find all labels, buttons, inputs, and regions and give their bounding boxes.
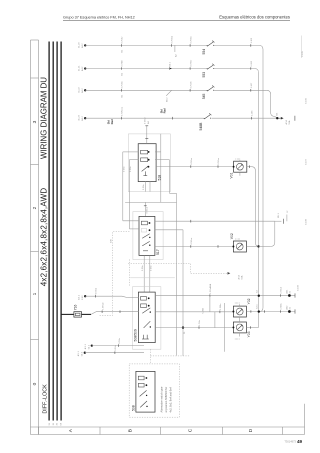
svg-text:0.75Gr: 0.75Gr (189, 60, 192, 67)
wire 518 to V01 (156, 157, 234, 168)
diagram title WIRING DIAGRAM DU (39, 77, 48, 159)
wire row 3 feed label (79, 87, 84, 93)
svg-text:B5.1: B5.1 (278, 213, 280, 218)
alternative relay contact 1 (140, 390, 148, 396)
frame right border (304, 404, 306, 435)
node row A terminal (285, 289, 295, 298)
grid letter A (68, 428, 74, 432)
diagram subtitle axle configs (39, 188, 48, 287)
row A left drop (202, 296, 210, 314)
svg-text:4x2, 8x2, 8x4 and 6x4: 4x2, 8x2, 8x4 and 6x4 (169, 387, 173, 413)
svg-text:WIRING DIAGRAM DU: WIRING DIAGRAM DU (39, 77, 48, 159)
diode V01 bottom stub (239, 172, 241, 176)
wire W3 (92, 337, 144, 347)
relay 508/509 bottom marks (142, 335, 149, 339)
relay 517 contact 2 (142, 241, 150, 250)
relay 517 contact 1 (142, 234, 150, 239)
svg-text:0.5Sv: 0.5Sv (143, 184, 145, 190)
svg-text:D: D (248, 428, 254, 432)
svg-text:A 5.1: A 5.1 (84, 343, 87, 349)
svg-text:B: B (128, 429, 134, 432)
svg-text:4x2,6x2,6x4,8x2,8x4,AWD: 4x2,6x2,6x4,8x2,8x4,AWD (39, 188, 48, 287)
svg-text:B4.2: B4.2 (82, 66, 84, 71)
svg-text:55A: 55A (288, 120, 291, 124)
wire marker row2 a (121, 60, 123, 76)
solenoid Y02 dashed bracket (235, 303, 240, 306)
diagram subtitle DIFF-LOCK (42, 384, 48, 414)
svg-text:0.75Vit: 0.75Vit (189, 81, 192, 88)
row B wire left (155, 311, 234, 313)
wire W4 (85, 344, 144, 354)
svg-text:716: 716 (74, 305, 78, 311)
svg-text:C:108: C:108 (306, 218, 308, 225)
relay 508/509 contact 1 (142, 308, 151, 313)
svg-text:31-23: 31-23 (79, 114, 81, 120)
svg-text:V02: V02 (230, 233, 234, 239)
svg-text:C2.1: C2.1 (257, 304, 259, 309)
relay 508/509 body (138, 292, 155, 343)
alternative relay 508 body (136, 371, 155, 412)
wire 518 right pin down (155, 134, 161, 203)
svg-text:31-20: 31-20 (79, 42, 81, 48)
svg-text:49: 49 (297, 439, 303, 444)
relay 517 coil 1 (141, 221, 150, 225)
alternative relay contact 2 (140, 401, 148, 407)
svg-text:0.5Gra: 0.5Gra (217, 157, 220, 164)
relay 508/509 coil 2 (141, 304, 150, 308)
svg-text:1.5Bla: 1.5Bla (281, 303, 283, 310)
solenoid Y03 designator (235, 331, 251, 340)
connector label right margin 2 (306, 97, 308, 104)
relay 508/509 contact 2 (144, 321, 151, 328)
page header right title (219, 14, 290, 19)
svg-text:0.5Sv: 0.5Sv (130, 166, 132, 172)
grid digit 3 (32, 120, 38, 123)
wire 518 top stub (145, 117, 150, 144)
node row A drop (257, 289, 260, 296)
wire fuse to relay (91, 302, 138, 314)
relay 517 body (139, 216, 155, 255)
wire marker row2 b (169, 61, 171, 69)
svg-text:( ) ( ): ( ) ( ) (235, 303, 240, 305)
svg-text:DIFF.-LOCK: DIFF.-LOCK (42, 384, 48, 414)
relay 517 coil 2 (141, 228, 150, 232)
svg-text:A 54: A 54 (285, 119, 288, 124)
svg-text:1.5Sv: 1.5Sv (199, 319, 201, 325)
wire drop from row 3 (267, 90, 278, 118)
diode V01 designator (230, 172, 234, 178)
row C wire right (246, 326, 258, 329)
svg-text:Grupo 37 Esquema elétrico FM,: Grupo 37 Esquema elétrico FM, FH, NH12 (63, 15, 135, 19)
node row 4 feed (84, 117, 86, 119)
svg-text:C:107: C:107 (306, 158, 308, 165)
connector label right margin 4 (306, 218, 308, 225)
node W3 (91, 344, 93, 346)
dashed alternative path (99, 232, 129, 316)
svg-text:Rad: Rad (163, 108, 167, 113)
svg-text:1-106: 1-106 (252, 110, 254, 116)
node row 3 feed (84, 89, 86, 91)
cable code label row 4 right (159, 108, 166, 113)
relay 518 body (138, 144, 156, 182)
wire 517 top stub (144, 202, 149, 216)
wire 517 left pins (123, 166, 139, 229)
wire row 2 after switch (214, 60, 254, 70)
svg-text:( ) ( ): ( ) ( ) (236, 158, 241, 160)
wire marker row3 b (189, 81, 192, 91)
svg-text:( ) ( ): ( ) ( ) (235, 339, 240, 341)
svg-text:T3014973: T3014973 (284, 440, 296, 444)
relay 518 coil 2 (141, 158, 150, 162)
relay 518 contact (142, 166, 150, 176)
grid letter B (128, 429, 134, 432)
svg-text:1-107: 1-107 (251, 82, 253, 88)
wire row 4 after switch (212, 110, 277, 120)
svg-text:( ) ( ): ( ) ( ) (235, 239, 240, 241)
row C wire left (155, 319, 234, 329)
svg-text:C:105: C:105 (302, 50, 304, 57)
wire W3 feed label (84, 343, 90, 349)
relay 518 coil 1 (141, 150, 150, 154)
svg-text:545: 545 (202, 94, 206, 100)
svg-text:B4.2: B4.2 (82, 43, 84, 48)
node V02 junction (257, 245, 259, 247)
wire V01 to drop (247, 165, 259, 246)
fuse 716 (74, 305, 82, 318)
wire row 1 after switch (214, 37, 259, 47)
svg-text:B6A: B6A (209, 283, 212, 288)
node ground bus junction (182, 326, 186, 334)
page footer number (284, 439, 302, 444)
grid digit 2 (32, 206, 38, 209)
row B left drop (214, 312, 216, 328)
node row 4 junction (276, 112, 278, 119)
diode module V02 (232, 241, 246, 252)
wire drop from row 1 (259, 45, 264, 311)
svg-text:0.75Sv: 0.75Sv (122, 36, 124, 44)
wire marker row4 b (172, 117, 174, 120)
svg-text:1-106: 1-106 (251, 60, 253, 66)
svg-text:517: 517 (156, 249, 160, 255)
wire row 1 (85, 44, 207, 46)
alternative relay designator (132, 405, 136, 411)
svg-text:0.5Sv: 0.5Sv (115, 344, 117, 350)
svg-text:B6.1: B6.1 (170, 61, 172, 66)
wire marker row3 a (121, 80, 123, 97)
svg-text:A 5.1: A 5.1 (77, 351, 80, 357)
page header rule (63, 20, 290, 22)
diode V02 designator (230, 233, 234, 239)
svg-text:0.5Sv: 0.5Sv (142, 265, 144, 271)
switch 548B (199, 113, 211, 130)
svg-text:0.75Gn: 0.75Gn (122, 80, 124, 88)
wire marker row2 c (189, 60, 192, 70)
wire row 3 (85, 89, 207, 91)
solenoid Y02 bottom stub (239, 317, 241, 322)
dashed ground link (150, 349, 190, 364)
solenoid valve Y03 (232, 322, 246, 333)
svg-text:0.5Gra: 0.5Gra (190, 157, 193, 164)
wire row 4 (85, 117, 204, 119)
wire stub below row1 (175, 45, 178, 57)
dashed link drop (209, 283, 212, 288)
relay 517 designator (156, 249, 160, 255)
relay 508/509 designator (133, 329, 137, 341)
svg-text:at position 508/509 for: at position 508/509 for (164, 387, 168, 413)
solenoid Y02 designator (247, 298, 251, 304)
svg-text:0.75Gul: 0.75Gul (172, 35, 174, 43)
power bus bar 2 (52, 42, 54, 421)
row A markers (210, 287, 283, 297)
diode V02 dashed bracket (235, 239, 240, 241)
wire marker row1 b (171, 35, 173, 46)
wire drop from row 2 (255, 69, 259, 328)
svg-text:B4.2: B4.2 (82, 88, 84, 93)
switch 553 (202, 64, 214, 78)
bus bar bottom labels (49, 422, 63, 425)
node W1 (84, 295, 86, 297)
arrow out row 4 (279, 116, 295, 125)
wire feed label W1 (78, 294, 84, 300)
wire W4 feed label (77, 351, 83, 357)
svg-text:Y02: Y02 (247, 298, 251, 304)
wire 518 coil2 right down (155, 160, 177, 356)
svg-text:0.5Gul: 0.5Gul (145, 117, 147, 124)
fuse 716 feed thick wire (62, 313, 74, 315)
wire 518 left pin 2 (129, 160, 138, 229)
svg-text:508: 508 (132, 405, 136, 411)
alternative relay coil 1 (138, 376, 147, 380)
svg-text:0.5Sv: 0.5Sv (119, 337, 121, 343)
svg-text:1-105: 1-105 (251, 37, 253, 43)
node row B drop (257, 304, 260, 313)
relay 518 enclosure (128, 134, 170, 192)
diode module V01 (233, 161, 247, 172)
svg-text:553: 553 (202, 72, 206, 78)
node row 2 feed (84, 67, 86, 69)
svg-text:0.75Bl: 0.75Bl (122, 60, 124, 67)
grid digit 0 (32, 382, 38, 385)
wire 517 bottom pins (142, 255, 153, 292)
svg-text:C: C (188, 428, 194, 432)
svg-text:B4.2: B4.2 (82, 116, 84, 121)
svg-text:0.5Gul: 0.5Gul (147, 207, 149, 214)
svg-text:0.75Gn: 0.75Gn (190, 36, 192, 44)
svg-text:0.5Sv: 0.5Sv (150, 265, 152, 271)
dashed link arrow (128, 259, 243, 286)
svg-text:1.5Bla: 1.5Bla (220, 303, 222, 310)
grid letter D (248, 428, 254, 432)
svg-text:0.75Rosa: 0.75Rosa (122, 106, 124, 116)
svg-text:548B: 548B (199, 122, 203, 131)
svg-text:1.5Rod: 1.5Rod (102, 302, 104, 310)
bottom strip top rule (31, 426, 305, 428)
relay 518 designator (157, 175, 161, 181)
alternative switch legend box (129, 364, 179, 417)
diode V01 dashed bracket (236, 158, 241, 161)
svg-text:Rad: Rad (110, 119, 114, 124)
cable code label row 4 (107, 119, 114, 124)
legend note text (160, 386, 173, 412)
wire 517 to V02 (155, 237, 234, 248)
svg-text:0: 0 (32, 382, 38, 385)
wire row 3 after switch (214, 82, 266, 92)
drawing frame inner left border (31, 40, 39, 435)
svg-text:Y03: Y03 (247, 331, 251, 337)
wire 518 left pin 1 (123, 152, 138, 221)
svg-text:31-21: 31-21 (79, 65, 81, 71)
node W4 (84, 352, 86, 354)
power bus bar 3 (56, 42, 58, 421)
wire jog row3 (166, 90, 171, 102)
svg-text:2: 2 (32, 206, 38, 209)
node row B terminal (285, 305, 295, 314)
node row 1 feed (84, 44, 86, 46)
svg-text:C:109: C:109 (298, 284, 300, 291)
switch 554 (202, 41, 214, 55)
wire 517 right pin 1 (155, 210, 289, 224)
connector labels right margin (302, 36, 305, 59)
wire row 2 feed label (79, 65, 84, 71)
svg-text:B6.2: B6.2 (167, 97, 169, 102)
svg-text:A 54: A 54 (238, 274, 241, 279)
wire 518 bottom stubs (143, 182, 150, 192)
svg-text:554: 554 (202, 49, 206, 55)
svg-text:U05B: U05B (202, 307, 204, 313)
page header left title (63, 15, 135, 19)
grid letter C (188, 428, 194, 432)
optional block separator (130, 277, 175, 279)
row B markers (220, 303, 222, 313)
relay 508/509 enclosure (133, 287, 161, 350)
svg-text:V01: V01 (230, 172, 234, 178)
connector label right margin 5 (298, 284, 300, 291)
switch 545 (202, 86, 214, 100)
alternative relay coil 2 (138, 383, 147, 387)
solenoid valve Y02 (232, 306, 246, 317)
grid ticks left column (31, 78, 39, 340)
wire 517 right pin 2 (155, 230, 183, 356)
svg-text:31-22: 31-22 (79, 87, 81, 93)
relay 508/509 coil 1 (141, 297, 150, 301)
row B wire right (246, 303, 295, 313)
svg-text:1.5Gul: 1.5Gul (210, 287, 212, 294)
bottom strip bottom rule (31, 434, 305, 436)
svg-text:C:106: C:106 (306, 97, 308, 104)
wire marker row4 a (121, 106, 123, 119)
svg-text:Esquemas elétricos dos compone: Esquemas elétricos dos componentes (219, 14, 290, 19)
grid digit 1 (32, 292, 38, 295)
wire cross link 202 (125, 201, 176, 203)
svg-text:3: 3 (32, 120, 38, 123)
power bus bar 1 (48, 42, 50, 421)
wire W1 to relay (85, 287, 138, 297)
svg-text:A 5.1: A 5.1 (78, 294, 81, 300)
drawing frame left border (30, 40, 32, 435)
wire V02 out to terminal (246, 221, 274, 246)
power bus bar 4 (60, 42, 62, 421)
svg-text:1.5Gul: 1.5Gul (281, 287, 283, 294)
svg-text:0.5Sv: 0.5Sv (123, 166, 125, 172)
svg-text:1: 1 (32, 292, 38, 295)
wire row 1 feed label (79, 42, 84, 48)
svg-text:508/509: 508/509 (133, 329, 137, 341)
connector label right margin 3 (306, 158, 308, 165)
relay 517 enclosure (133, 212, 163, 260)
fuse 716 out thick wire (82, 313, 92, 315)
svg-text:55A: 55A (241, 275, 244, 279)
wire row 4 feed label (79, 114, 84, 120)
wire row 2 (85, 68, 207, 70)
wire marker row1 a (121, 36, 192, 53)
phantom vertical right of relays (223, 303, 225, 352)
svg-text:0.5Gra: 0.5Gra (190, 237, 193, 244)
row A wire (155, 295, 295, 297)
bottom strip dividers (39, 427, 283, 435)
svg-text:Alternative switch type: Alternative switch type (160, 386, 164, 412)
svg-text:0.5Gul: 0.5Gul (96, 287, 98, 294)
